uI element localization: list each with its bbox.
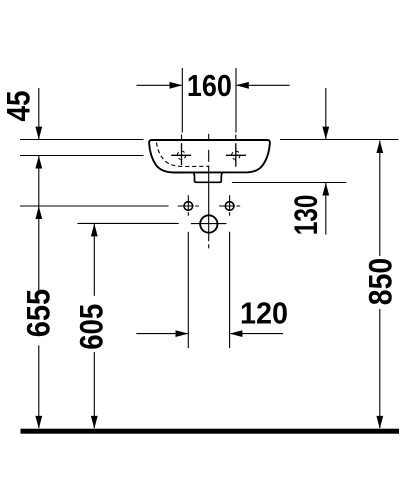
svg-text:655: 655 (20, 289, 56, 337)
dimension 655 (35, 206, 42, 429)
dimension 850 (376, 140, 383, 429)
dimension 120 (136, 232, 283, 348)
centre line of basin (208, 134, 210, 249)
svg-text:160: 160 (187, 69, 232, 103)
svg-text:120: 120 (240, 297, 288, 331)
basin inner dashed line (157, 143, 209, 167)
drain outlet (194, 173, 223, 183)
rim level right (280, 139, 399, 141)
left tap hole marker (171, 143, 191, 165)
drain level left (78, 222, 179, 224)
reference lines (20, 140, 399, 224)
right mounting hole (219, 195, 240, 216)
svg-text:850: 850 (362, 258, 398, 305)
dimension 605 (91, 224, 98, 429)
outlet level right (232, 182, 346, 184)
washbasin outline (149, 140, 270, 173)
svg-text:605: 605 (74, 304, 110, 350)
dimension 130 (322, 88, 329, 235)
drain circle (191, 215, 227, 232)
tap centre dashes crossing rim (181, 135, 183, 140)
tap level left (20, 155, 144, 157)
dimension 160 (137, 68, 290, 133)
svg-text:130: 130 (288, 195, 324, 236)
hole level left (20, 205, 169, 207)
left mounting hole (178, 195, 199, 216)
svg-text:45: 45 (1, 91, 37, 122)
floor line (21, 429, 400, 434)
rim level left (20, 139, 144, 141)
dimension 45 (35, 88, 42, 206)
right tap hole marker (226, 143, 246, 167)
